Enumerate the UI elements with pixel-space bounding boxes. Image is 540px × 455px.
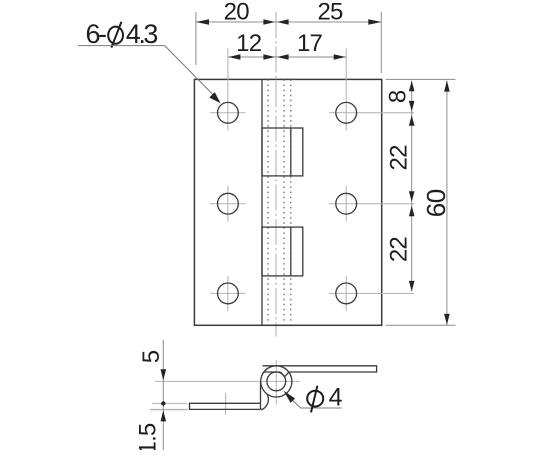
bowtie arrows at second hole row xyxy=(409,191,415,216)
svg-text:1.5: 1.5 xyxy=(135,423,162,450)
hidden line (dotted) xyxy=(290,79,292,325)
bowtie arrows at center 12/17 xyxy=(263,54,288,59)
svg-text:4: 4 xyxy=(329,384,343,412)
crosshair hole mid-right xyxy=(329,186,414,222)
svg-text:4.3: 4.3 xyxy=(126,19,158,49)
bowtie arrows at center top xyxy=(263,19,288,24)
hole mid-right xyxy=(336,193,357,214)
extension line leaf top xyxy=(152,402,188,404)
svg-text:8: 8 xyxy=(384,90,411,103)
svg-text:25: 25 xyxy=(317,0,343,25)
arrow down to pin center line (5) xyxy=(161,369,167,380)
right bottom extension line xyxy=(386,324,456,326)
hidden line (dotted) xyxy=(283,79,285,325)
side view pin crosshair horizontal xyxy=(155,380,300,382)
bowtie arrows at first hole row xyxy=(409,101,415,126)
svg-text:20: 20 xyxy=(224,0,250,25)
arrow left 20 xyxy=(196,19,209,24)
left leaf center tick xyxy=(225,393,227,415)
crosshair hole top-left xyxy=(210,49,246,131)
hinge pin circle phi4 xyxy=(267,372,286,391)
hole crosshairs (light gray) xyxy=(210,49,414,312)
holes (6x phi 4.3) xyxy=(218,102,357,303)
arrow down 22 bottom xyxy=(409,281,415,292)
dim line 20/25 xyxy=(196,21,381,23)
leader line of 6-phi4.3 xyxy=(78,46,219,101)
svg-text:17: 17 xyxy=(297,30,323,57)
crosshair hole bottom-right xyxy=(329,276,414,311)
crosshair hole mid-left xyxy=(210,186,246,222)
dim line 12/17 xyxy=(228,56,346,58)
arrow up 60 xyxy=(444,81,450,92)
hole top-right xyxy=(336,102,357,123)
phi4 leader arrowhead xyxy=(284,391,296,403)
hidden line (dotted) xyxy=(267,79,269,325)
dim line 8/22/22 chain xyxy=(411,81,413,292)
phi symbol of label xyxy=(108,22,123,48)
center line (vertical dash-dot through hinge pin axis, front view) xyxy=(275,12,277,337)
extension + dimension lines (gray) xyxy=(196,12,456,325)
dimension arrows (black) xyxy=(196,19,450,325)
phi4 leader line xyxy=(293,401,342,408)
dim line 60 xyxy=(446,81,448,325)
svg-text:60: 60 xyxy=(421,189,451,217)
left leaf (side view) xyxy=(190,381,269,410)
dot at leaf top (5/1.5 shared) xyxy=(161,401,165,405)
hinge plate outline (front view) xyxy=(194,79,381,325)
arrow right 17 xyxy=(334,54,346,59)
hole mid-left xyxy=(218,193,239,214)
knuckle outer curl circle xyxy=(261,366,292,397)
knuckle left edge line xyxy=(261,79,263,325)
side view pin crosshair vertical xyxy=(275,360,277,405)
phi symbol of phi4 xyxy=(307,386,323,413)
knuckle cutout rectangle upper xyxy=(262,128,303,176)
hole bottom-right xyxy=(336,283,357,304)
extension line leaf bottom xyxy=(150,409,188,411)
extension line left of 20 xyxy=(195,12,197,65)
crosshair hole bottom-left xyxy=(210,276,246,311)
hole bottom-left xyxy=(218,283,239,304)
right top extension line xyxy=(386,78,456,80)
arrow left 12 xyxy=(228,54,240,59)
svg-text:5: 5 xyxy=(138,350,165,363)
svg-text:6-: 6- xyxy=(86,19,107,49)
bottom dim line vertical xyxy=(162,340,164,450)
arrow down 60 xyxy=(444,314,450,325)
svg-text:12: 12 xyxy=(236,30,262,57)
extension line right of 25 xyxy=(380,12,382,73)
knuckle tangent line lower xyxy=(290,227,292,276)
arrow up to leaf bottom (1.5) xyxy=(161,410,167,421)
svg-text:22: 22 xyxy=(385,145,412,171)
knuckle cutout rectangle lower xyxy=(262,227,303,276)
knuckle tangent line upper xyxy=(290,128,292,176)
right leaf (side view) xyxy=(263,366,377,377)
hole top-left xyxy=(218,102,239,123)
crosshair hole top-right xyxy=(329,49,414,131)
svg-text:22: 22 xyxy=(385,237,412,263)
arrow right 25 xyxy=(368,19,381,24)
arrow up 8 top xyxy=(409,81,415,92)
leader arrowhead at top-left hole xyxy=(209,92,220,103)
